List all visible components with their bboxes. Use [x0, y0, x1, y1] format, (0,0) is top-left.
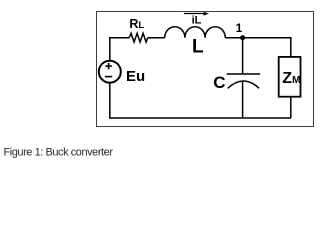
wire: node 1 down to capacitor: [242, 38, 244, 74]
current arrow iL: [184, 12, 209, 16]
wire: resistor to inductor: [148, 37, 165, 39]
wire: bottom rail: [110, 83, 291, 118]
svg-text:ZM: ZM: [282, 70, 300, 87]
capacitor C: [227, 74, 261, 88]
node 1 junction dot: [240, 35, 245, 40]
wire: capacitor to bottom rail: [242, 81, 244, 118]
wire: Eu top lead to resistor RL: [110, 38, 130, 61]
svg-text:Eu: Eu: [126, 68, 145, 85]
svg-text:1: 1: [236, 21, 243, 35]
impedance ZM: [279, 57, 301, 97]
svg-text:L: L: [192, 37, 204, 58]
inductor L: [165, 27, 226, 38]
svg-text:Figure 1: Buck converter: Figure 1: Buck converter: [4, 147, 114, 159]
wire: inductor to node 1 and across to ZM branch: [225, 38, 290, 57]
svg-text:RL: RL: [129, 17, 144, 31]
resistor R_L: [129, 33, 147, 42]
svg-text:iL: iL: [192, 15, 202, 27]
wire: ZM to bottom rail: [290, 97, 292, 118]
svg-text:C: C: [213, 73, 225, 92]
voltage source Eu: [99, 61, 121, 83]
